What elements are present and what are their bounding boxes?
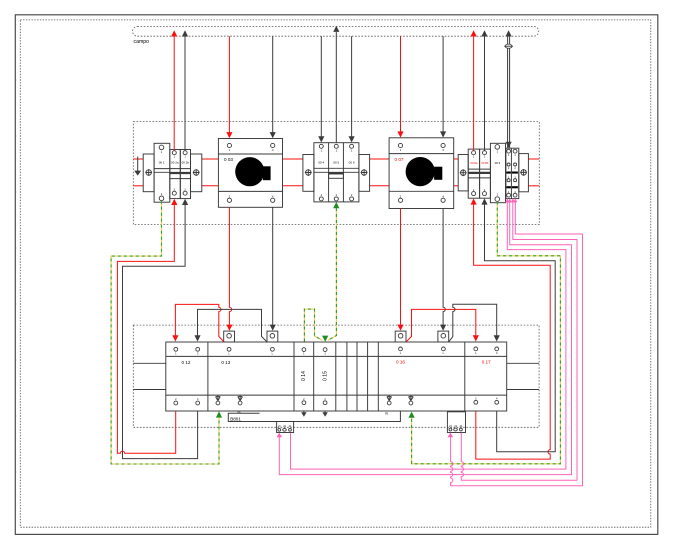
wire black campo to 00 6 — [349, 36, 355, 142]
svg-text:00 5: 00 5 — [333, 161, 339, 165]
wire black 0 03 pin4 to plug 0 13 R — [270, 207, 276, 330]
enclosure dashed box (bottom terminal row) — [133, 325, 539, 427]
svg-text:0 07: 0 07 — [395, 157, 404, 162]
ground arrow left of breaker 00 1 — [134, 157, 141, 176]
wire red plug 0 13 L to terminal 0 12.1 — [172, 304, 224, 341]
connector block 21 22 24 (right) — [447, 412, 465, 438]
wire PE dashed 00 1 bottom to terminal 0 13 link — [111, 201, 222, 464]
terminal circles pole 00 1 — [159, 145, 164, 150]
wire black campo to 0 07 pin3 — [440, 36, 446, 137]
plug connector 0 13 L — [224, 331, 235, 342]
svg-text:campo: campo — [134, 39, 150, 45]
terminals — [319, 144, 323, 148]
terminal 0 17 — [474, 347, 499, 404]
wire red bus upper segment 5 — [454, 158, 459, 160]
svg-text:0 13: 0 13 — [221, 360, 230, 365]
wire red bus upper segment 2 — [202, 158, 219, 160]
wire red campo to 0 03 pin1 — [226, 36, 232, 138]
wire red campo to 0 07 pin1 — [397, 36, 403, 137]
breaker 00 1 / 00 2a / 00 2b (Q1) — [143, 143, 202, 202]
svg-text:00 8b: 00 8b — [481, 161, 488, 165]
terminal 0 13 — [216, 347, 275, 405]
svg-text:00 4: 00 4 — [318, 161, 324, 165]
wire PE dashed 00 9 bottom to terminal 0 16 link — [409, 202, 561, 464]
svg-text:0 15: 0 15 — [322, 371, 328, 381]
terminal circles pole 00 2b — [183, 151, 187, 155]
svg-text:00 8a: 00 8a — [470, 161, 477, 165]
svg-text:0 12: 0 12 — [182, 360, 191, 365]
wire red campo to 00 8a top — [471, 30, 477, 150]
svg-text:PE: PE — [385, 413, 389, 416]
terminals 00 8a — [472, 151, 476, 155]
breaker 00 8a / 00 8b + disconnector 00 9 + fuse block — [458, 143, 528, 202]
terminal 0 15 — [322, 348, 328, 417]
pink arrows at fuse block outlet — [505, 199, 517, 203]
screw symbol right flange — [193, 169, 200, 176]
wire red bus lower segment 3 — [283, 185, 303, 187]
link symbol — [216, 395, 221, 401]
side stub left lower — [133, 389, 166, 391]
svg-text:00 1: 00 1 — [159, 161, 165, 165]
link symbol — [387, 395, 392, 401]
plug connector 0 16 R — [438, 331, 449, 342]
wire black campo to 0 03 pin3 — [270, 36, 276, 138]
svg-text:0 03: 0 03 — [224, 157, 233, 162]
screw symbol right flange — [520, 169, 527, 176]
svg-text:0 16: 0 16 — [396, 360, 405, 365]
terminals 00 9 — [495, 145, 500, 150]
pin labels — [161, 150, 187, 196]
terminals 00 8b — [483, 151, 487, 155]
wire pink fuse 3 to connector right 24 — [461, 199, 577, 481]
wire black 00 2b bottom to terminal 0 12.4 — [123, 199, 198, 459]
wire red 0 07 pin2 to plug 0 16 L — [397, 209, 403, 331]
terminal circles pole 00 2a — [172, 151, 176, 155]
knob — [406, 157, 435, 186]
wire black 00 8b bottom to terminal 0 17.4 — [481, 198, 555, 451]
screw symbol right flange — [361, 169, 368, 176]
side stub right upper — [507, 362, 539, 364]
trip bar — [314, 168, 359, 172]
wire black plug 0 16 R to terminal 0 17.3 — [449, 304, 500, 342]
link symbol — [238, 395, 243, 401]
wire red bus upper segment 4 — [370, 158, 390, 160]
screw symbol left flange — [305, 169, 312, 176]
wire red bus upper segment 6 — [528, 158, 539, 160]
link symbol — [409, 395, 414, 401]
wire pink fuse 2 to connector left 21 — [279, 199, 571, 475]
enclosure dashed box (top device row) — [133, 122, 539, 225]
rotary switch 0 03 — [218, 139, 282, 208]
wire red bus lower segment 1 — [133, 185, 143, 187]
svg-text:00 2a: 00 2a — [171, 161, 179, 165]
wire red 00 8a bottom to terminal 0 17.2 — [471, 198, 551, 459]
wire red bus lower segment 4 — [370, 185, 390, 187]
fuse terminal block — [506, 148, 519, 198]
rotary switch 0 07 — [389, 138, 454, 209]
wire PE dashed 00 5 bottom to terminal 0 15.1 — [328, 202, 340, 340]
svg-text:00 2b: 00 2b — [182, 161, 190, 165]
terminals — [227, 143, 231, 147]
wire red plug 0 16 L to terminal 0 17.1 — [406, 309, 479, 341]
side stub right lower — [507, 389, 539, 391]
value labels — [159, 161, 190, 165]
wire black campo to 00 4 — [318, 36, 324, 142]
wire red 00 2a bottom to terminal 0 12.2 — [117, 199, 177, 453]
wire red bus upper segment 1 — [133, 158, 143, 160]
wire black campo to 00 8b top — [481, 30, 487, 150]
terminal 0 12 — [174, 347, 200, 405]
terminals — [398, 143, 402, 147]
wire PE dashed terminal 0 14.1 jumper to 0 15.1 — [304, 309, 328, 342]
terminal 0 14 — [301, 348, 307, 417]
cable (double line) campo to fuse block — [504, 30, 513, 148]
knob — [235, 157, 264, 186]
wire red campo to 00 2a top — [171, 30, 177, 150]
wire black 0 07 pin4 to plug 0 16 R — [440, 209, 446, 331]
side stub left upper — [133, 362, 166, 364]
cable duct campo — [133, 27, 539, 46]
wire red bus upper segment 3 — [283, 158, 303, 160]
wire red 0 03 pin2 to plug 0 13 L — [226, 207, 232, 330]
wire black plug 0 13 R to terminal 0 12.3 — [194, 309, 267, 341]
plug connector 0 13 R — [267, 331, 278, 342]
trip bar — [154, 169, 190, 173]
trip bar — [468, 169, 490, 172]
connector block 21 22 24 (left) — [277, 422, 294, 438]
wire red bus lower segment 5 — [454, 185, 459, 187]
earth arrow below 0 15 — [322, 411, 327, 417]
terminal block assembly B8 — [166, 342, 507, 411]
screw symbol left flange — [460, 169, 467, 176]
PE bar B801 — [228, 411, 400, 422]
breaker 00 4 / 00 5 / 00 6 — [303, 143, 370, 202]
wire black campo to 00 2b top — [182, 30, 188, 150]
wire pink fuse 1 to connector left 24 — [291, 199, 566, 470]
svg-text:PE: PE — [238, 411, 242, 414]
terminal 0 16 — [387, 347, 446, 405]
svg-text:00 6: 00 6 — [349, 161, 355, 165]
plug connector 0 16 L — [395, 331, 406, 342]
wire red bus lower segment 2 — [202, 185, 219, 187]
svg-text:00 9: 00 9 — [495, 161, 501, 165]
screw symbol left flange — [145, 169, 152, 176]
wire red bus lower segment 6 — [528, 185, 539, 187]
svg-text:0 14: 0 14 — [301, 371, 307, 381]
wire pink fuse 4 to connector right 21 — [451, 199, 583, 486]
svg-text:B801: B801 — [230, 416, 241, 421]
wire black campo to 00 5 (arrow at duct) — [333, 26, 339, 143]
earth arrow below 0 14 — [301, 411, 306, 417]
svg-text:0 17: 0 17 — [482, 360, 491, 365]
